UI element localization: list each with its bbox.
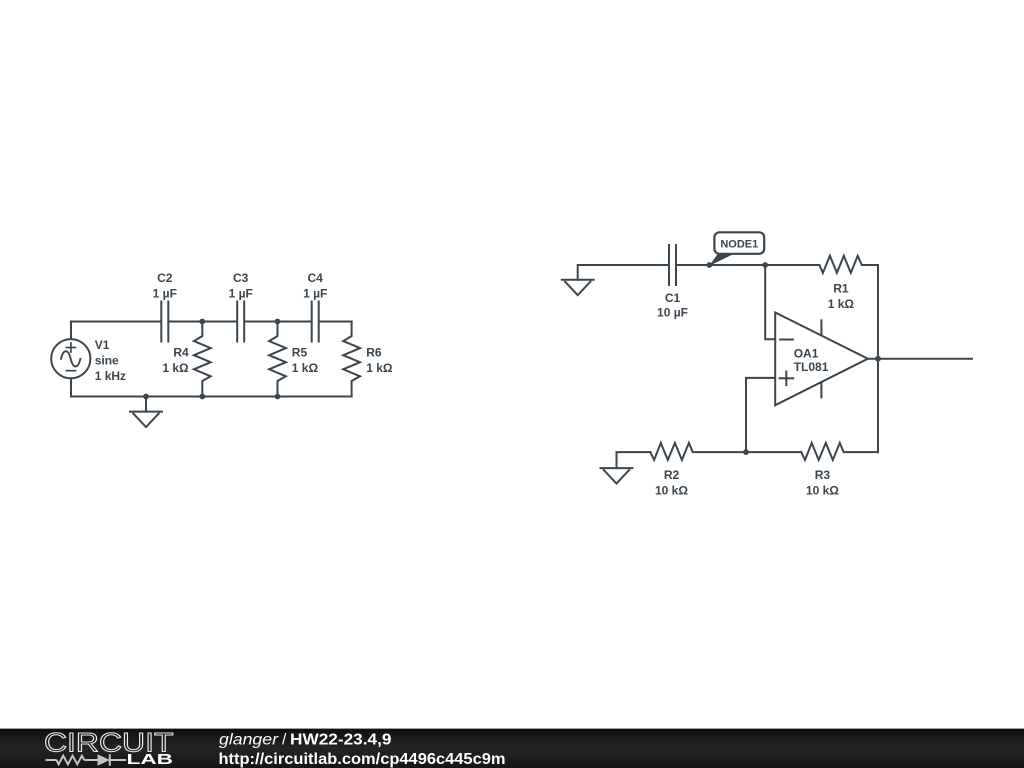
junction node gnd bottom: [143, 394, 149, 400]
wire junction to R3: [746, 451, 801, 453]
svg-text:10 kΩ: 10 kΩ: [806, 484, 839, 498]
op-amp power pin top: [820, 320, 822, 335]
resistor R1: [819, 256, 878, 273]
svg-text:LAB: LAB: [127, 752, 174, 768]
logo resistor zigzag: [57, 756, 85, 765]
op-amp power pin bottom: [820, 383, 822, 398]
svg-text:TL081: TL081: [794, 360, 829, 374]
ground bottom left of right circuit: [601, 468, 633, 483]
svg-text:R2: R2: [664, 468, 680, 482]
svg-text:10 µF: 10 µF: [657, 305, 688, 319]
wire bottom rail left circuit: [71, 378, 352, 396]
wire C2 to C3: [169, 321, 236, 323]
svg-text:C4: C4: [308, 271, 324, 285]
svg-text:V1: V1: [95, 338, 110, 352]
voltage source V1 circle: [51, 339, 90, 378]
junction node C3-R5: [275, 319, 281, 325]
logo diode triangle: [98, 754, 110, 766]
svg-text:R3: R3: [815, 468, 831, 482]
svg-text:NODE1: NODE1: [720, 238, 758, 250]
svg-text:1 µF: 1 µF: [229, 287, 253, 301]
svg-text:R6: R6: [366, 345, 382, 359]
op-amp plus symbol: [780, 372, 794, 386]
wire to inverting input: [765, 265, 775, 339]
NODE1 flag box: [714, 232, 764, 254]
svg-text:R4: R4: [173, 345, 189, 359]
ground left circuit: [130, 397, 162, 428]
svg-text:1 µF: 1 µF: [153, 287, 177, 301]
resistor R4: [194, 322, 211, 397]
V1 minus sign: [66, 370, 75, 372]
svg-text:1 µF: 1 µF: [303, 287, 327, 301]
resistor R3: [801, 443, 878, 460]
V1 sine wave: [61, 351, 80, 366]
capacitor C1: [669, 245, 676, 285]
svg-text:C1: C1: [665, 291, 681, 305]
wire C1 to R1: [677, 264, 819, 266]
junction node output: [875, 356, 881, 362]
svg-text:HW22-23.4,9: HW22-23.4,9: [290, 732, 392, 749]
junction node R5 bottom: [275, 394, 281, 400]
svg-text:glanger: glanger: [219, 732, 279, 749]
wire gnd to C1: [578, 265, 668, 280]
junction node C2-R4: [199, 319, 205, 325]
resistor R5: [269, 322, 286, 397]
svg-text:sine: sine: [95, 354, 119, 368]
V1 plus sign: [66, 343, 75, 352]
ground top left of right circuit: [562, 280, 594, 295]
op-amp minus symbol: [780, 339, 793, 341]
resistor R2: [650, 443, 746, 460]
resistor R6: [343, 322, 360, 397]
svg-text:C3: C3: [233, 271, 249, 285]
bottom wire gnd to R2: [617, 452, 651, 468]
capacitor C3: [237, 302, 244, 342]
wire top rail left circuit: [71, 322, 160, 340]
capacitor C2: [161, 302, 168, 342]
capacitor C4: [312, 302, 319, 342]
svg-text:/: /: [282, 732, 287, 749]
wire right vertical feedback: [877, 265, 879, 452]
logo diode bar: [109, 754, 111, 765]
svg-text:1 kΩ: 1 kΩ: [828, 297, 855, 311]
svg-text:R1: R1: [833, 282, 849, 296]
svg-text:http://circuitlab.com/cp4496c4: http://circuitlab.com/cp4496c445c9m: [219, 751, 506, 768]
svg-text:R5: R5: [292, 345, 308, 359]
junction node R4 bottom: [199, 394, 205, 400]
svg-text:1 kΩ: 1 kΩ: [366, 361, 393, 375]
svg-text:C2: C2: [157, 271, 173, 285]
footer bar: [0, 729, 1024, 768]
logo wire after diode: [110, 759, 126, 761]
NODE1 flag pointer: [709, 254, 734, 266]
junction node inverting branch: [762, 262, 768, 268]
op-amp OA1 triangle: [775, 313, 868, 406]
wire C4 to right corner: [320, 321, 352, 323]
junction node NODE1: [707, 262, 713, 268]
svg-text:1 kΩ: 1 kΩ: [162, 361, 189, 375]
svg-text:OA1: OA1: [794, 346, 819, 360]
junction node R2-R3: [743, 449, 749, 455]
logo resistor lead: [46, 759, 57, 761]
svg-text:1 kHz: 1 kHz: [95, 369, 126, 383]
logo wire to diode: [84, 759, 97, 761]
output wire: [868, 358, 972, 360]
svg-text:1 kΩ: 1 kΩ: [292, 361, 319, 375]
wire to non-inverting input: [746, 378, 775, 452]
wire C3 to C4: [245, 321, 311, 323]
svg-text:10 kΩ: 10 kΩ: [655, 484, 688, 498]
